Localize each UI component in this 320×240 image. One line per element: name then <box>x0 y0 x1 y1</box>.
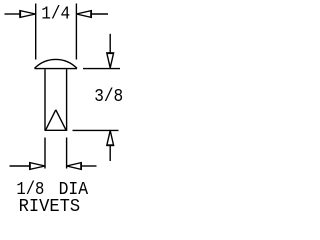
bottom dimension right extension line <box>66 138 68 169</box>
top dimension right extension line <box>75 4 77 60</box>
wire: bottom dimension right tail <box>81 165 96 167</box>
wire: bottom dimension left tail <box>10 165 30 167</box>
top dimension left arrowhead (open, points right) <box>20 11 36 18</box>
arrow back bar bottom-left <box>29 162 31 169</box>
svg-text:RIVETS: RIVETS <box>19 197 81 217</box>
rivet shank bottom line <box>45 129 68 131</box>
arrow back bar top-right <box>90 10 92 17</box>
wire: right dimension bottom tail <box>109 145 111 161</box>
right dimension bottom arrowhead (open, points up) <box>107 131 114 146</box>
bottom dimension right arrowhead (open, points left) <box>67 163 82 170</box>
rivet shank right line <box>66 69 68 130</box>
wire: top dimension right tail <box>91 13 108 15</box>
right dimension top arrowhead (open, points down) <box>107 53 114 68</box>
top dimension left extension line <box>35 4 37 60</box>
bottom plate line right segment <box>73 129 119 131</box>
surface line under head <box>35 68 78 70</box>
bottom dimension left extension line <box>44 138 46 169</box>
rivet point triangle left leg <box>46 110 56 130</box>
arrow back bar right-dim lower <box>107 144 114 146</box>
rivet point triangle right leg <box>56 110 66 130</box>
wire: top dimension left tail <box>5 13 21 15</box>
rivet shank left line <box>44 69 46 130</box>
bottom dimension left arrowhead (open, points right) <box>30 163 45 170</box>
arrow back bar right-dim upper <box>107 52 114 54</box>
top dimension right arrowhead (open, points left) <box>76 11 91 18</box>
svg-text:1/4: 1/4 <box>41 5 70 25</box>
rivet dome head arc <box>35 59 78 68</box>
surface line right segment <box>83 68 120 70</box>
arrow back bar top-left <box>19 10 21 17</box>
rivet dimensioned drawing <box>0 0 130 220</box>
wire: right dimension top tail <box>109 34 111 53</box>
svg-text:3/8: 3/8 <box>94 87 123 107</box>
arrow back bar bottom-right <box>80 162 82 169</box>
